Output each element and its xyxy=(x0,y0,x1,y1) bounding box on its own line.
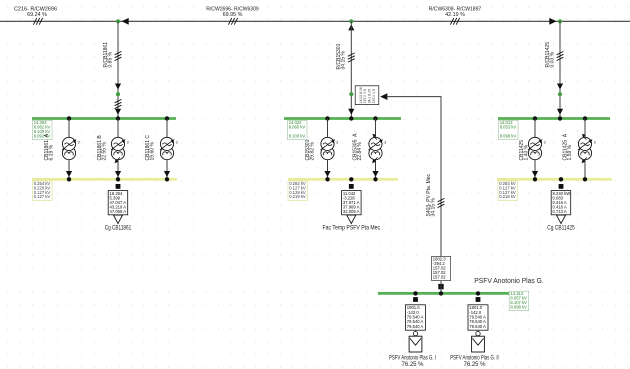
load Fac Temp PSFV Pta Mec xyxy=(349,184,354,189)
svg-text:1.40 %: 1.40 % xyxy=(523,144,529,160)
result box bus CB11861 xyxy=(33,120,53,139)
svg-text:32.009 A: 32.009 A xyxy=(343,209,360,214)
bus CB11425 8kV (green) xyxy=(498,117,610,120)
transformer CB11861 A xyxy=(68,119,70,138)
flow arrow transformer CB11861 B to LV bus xyxy=(115,171,121,177)
node junction PSFV bus S403 xyxy=(439,291,443,295)
bus CB15301 8kV (green) xyxy=(284,117,401,120)
svg-text:42.19 %: 42.19 % xyxy=(445,12,465,18)
svg-text:PSFV Anotonio Plas G. II: PSFV Anotonio Plas G. II xyxy=(450,356,499,362)
bus CB11861 8kV (green) xyxy=(32,117,176,120)
line mark /// R/CW6309 segment xyxy=(450,18,459,25)
wire feeder R/CB11861 xyxy=(117,21,119,118)
node junction CB11425 LV left xyxy=(533,177,537,181)
line mark /// S403 PV line xyxy=(438,198,445,207)
svg-text:3: 3 xyxy=(594,141,596,145)
node junction Fac LV right xyxy=(373,177,377,181)
result box bus CB11425 xyxy=(499,120,519,139)
result box bus CB11861 LV xyxy=(33,181,53,200)
node junction PSFV bus gen I xyxy=(413,291,417,295)
result box bus CB11425 LV xyxy=(498,181,518,200)
wire branch to S403 line horizontal xyxy=(387,97,441,257)
svg-text:69.95 %: 69.95 % xyxy=(223,12,243,18)
svg-text:157.0 0.9: 157.0 0.9 xyxy=(372,89,376,103)
load Cg CB11425 xyxy=(559,184,564,189)
flow arrow branch to S403 xyxy=(380,93,387,100)
svg-text:0.127 kV: 0.127 kV xyxy=(34,194,51,199)
svg-text:8.060 kV: 8.060 kV xyxy=(289,125,306,130)
flow arrow feeder R/CB11425 xyxy=(557,84,563,90)
svg-text:29.82 %: 29.82 % xyxy=(309,142,315,161)
bus PSFV Anotonio Plas G. (green) xyxy=(378,292,511,295)
line mark /// feeder R/CB11861 lower xyxy=(115,99,122,108)
flow arrow into bus CB11861 xyxy=(115,109,121,115)
flow arrow into bus CB15301 xyxy=(348,109,354,115)
svg-text:Fac Temp PSFV Pta Mec: Fac Temp PSFV Pta Mec xyxy=(323,225,381,232)
PV generator PSFV Anotonio Plas G. I xyxy=(413,297,418,302)
svg-text:79.540 A: 79.540 A xyxy=(469,324,486,329)
svg-text:157.0 0.9: 157.0 0.9 xyxy=(363,89,367,103)
transformer CB11425 xyxy=(534,119,536,138)
svg-text:0.218 kV: 0.218 kV xyxy=(499,194,516,199)
node junction LV bus left xyxy=(67,177,71,181)
svg-text:76.25 %: 76.25 % xyxy=(463,362,486,368)
node tap junction 3 with flow arrow xyxy=(549,18,556,25)
bus CB11861 LV (yellow) xyxy=(32,178,177,181)
node tap junction 2 with flow arrow xyxy=(349,19,353,23)
flow arrow transformer CB11861 A to LV bus xyxy=(66,171,72,177)
flow arrow transformer CB11861 C to LV bus xyxy=(164,171,170,177)
node junction Fac LV left xyxy=(325,177,329,181)
svg-text:157.02: 157.02 xyxy=(433,275,446,280)
node junction bus CB15301 left xyxy=(325,116,329,120)
load Cg CB11861 xyxy=(116,184,121,189)
transformer CB15305 A xyxy=(375,119,377,138)
svg-text:3: 3 xyxy=(127,141,129,145)
bus CB11425 LV (yellow) xyxy=(497,178,612,181)
node junction CB11425 LV right xyxy=(583,177,587,181)
node junction bus CB11861 right xyxy=(165,116,169,120)
breaker S403 to PSFV bus xyxy=(438,284,443,289)
wire: top transmission line C216 to R/CW1897 xyxy=(0,20,630,22)
wire feeder R/CB15301 xyxy=(350,21,352,118)
svg-text:6.19 %: 6.19 % xyxy=(48,144,54,160)
node tap junction 1 with flow arrow xyxy=(122,18,129,25)
svg-text:79.540 A: 79.540 A xyxy=(407,324,424,329)
node junction bus CB11425 right xyxy=(583,116,587,120)
bus Fac Temp LV (yellow) xyxy=(288,178,398,181)
result box branch S403 tap (rotated) xyxy=(355,86,379,105)
node junction bus CB11425 left xyxy=(533,116,537,120)
flow arrow feeder R/CB11861 xyxy=(115,84,121,90)
node junction bus CB11425 feeder xyxy=(558,116,562,120)
svg-text:22.84 %: 22.84 % xyxy=(357,142,363,161)
node junction PSFV bus gen II xyxy=(476,291,480,295)
svg-text:PSFV Anotonio Plas G. I: PSFV Anotonio Plas G. I xyxy=(389,356,436,362)
transformer CB11861 B xyxy=(117,119,119,138)
svg-text:69.24 %: 69.24 % xyxy=(27,12,47,18)
svg-text:1.59 %: 1.59 % xyxy=(567,144,573,160)
svg-text:22.55 %: 22.55 % xyxy=(101,142,107,161)
node junction bus CB11861 left xyxy=(67,116,71,120)
svg-text:3: 3 xyxy=(384,141,386,145)
line mark /// R/CW2696 segment xyxy=(228,18,237,25)
svg-text:3: 3 xyxy=(176,141,178,145)
svg-text:47.068 A: 47.068 A xyxy=(110,209,127,214)
node junction LV bus mid xyxy=(116,177,120,181)
svg-text:0.219 kV: 0.219 kV xyxy=(289,194,306,199)
line mark /// C216 segment xyxy=(33,18,42,25)
svg-text:14.02 8.06: 14.02 8.06 xyxy=(359,87,363,103)
result box bus PSFV xyxy=(509,291,529,310)
svg-text:Cg CB11425: Cg CB11425 xyxy=(547,225,575,232)
svg-text:76.25 %: 76.25 % xyxy=(401,362,424,368)
line mark /// feeder R/CB11425 xyxy=(557,51,564,60)
node junction LV bus right xyxy=(165,177,169,181)
flow arrow transformer CB11425 to LV bus xyxy=(532,171,538,177)
line mark /// feeder R/CB11861 xyxy=(115,51,122,60)
svg-text:8.098 kV: 8.098 kV xyxy=(510,304,527,309)
svg-text:19.60 %: 19.60 % xyxy=(149,142,155,161)
PV generator PSFV Anotonio Plas G. II xyxy=(476,297,481,302)
svg-text:34.1 8.05: 34.1 8.05 xyxy=(368,89,372,103)
flow arrow into bus CB11425 xyxy=(557,109,563,115)
result box S403 line end xyxy=(432,256,451,280)
svg-text:Cg CB11861: Cg CB11861 xyxy=(105,225,132,232)
wire feeder R/CB11425 xyxy=(559,21,561,118)
svg-text:34.15 %: 34.15 % xyxy=(341,51,347,70)
line mark /// feeder R/CB15301 xyxy=(348,53,355,62)
breaker closed feeder R/CB11425 xyxy=(558,92,562,96)
flow arrow transformer CB15305 A to LV bus xyxy=(372,171,378,177)
svg-text:3: 3 xyxy=(544,141,546,145)
result box bus Fac Temp LV xyxy=(288,181,308,200)
result box bus CB15301 xyxy=(288,120,308,139)
svg-text:8.098 kV: 8.098 kV xyxy=(500,134,517,139)
svg-text:8.100 kV: 8.100 kV xyxy=(289,134,306,139)
node junction CB11425 LV mid xyxy=(559,177,563,181)
breaker closed feeder R/CB11861 xyxy=(116,92,120,96)
svg-text:3: 3 xyxy=(336,141,338,145)
flow arrow transformer CB15301 to LV bus xyxy=(324,171,330,177)
svg-text:34.15 %: 34.15 % xyxy=(430,198,436,217)
svg-text:0.713 A: 0.713 A xyxy=(553,209,567,214)
node junction bus CB11861 mid xyxy=(116,116,120,120)
breaker closed feeder R/CB15301 xyxy=(349,92,353,96)
transformer CB11425 A xyxy=(584,119,586,138)
svg-text:0.85 %: 0.85 % xyxy=(108,51,114,67)
transformer CB15301 xyxy=(327,119,329,138)
transformer CB11861 C xyxy=(166,119,168,138)
svg-text:PSFV Anotonio Plas G.: PSFV Anotonio Plas G. xyxy=(474,276,544,285)
node junction bus CB15301 right xyxy=(373,116,377,120)
svg-text:8.053 kV: 8.053 kV xyxy=(500,125,517,130)
node junction bus CB15301 feeder xyxy=(349,116,353,120)
svg-text:3: 3 xyxy=(78,141,80,145)
node junction Fac LV mid xyxy=(349,177,353,181)
svg-text:0.03 %: 0.03 % xyxy=(550,51,556,67)
